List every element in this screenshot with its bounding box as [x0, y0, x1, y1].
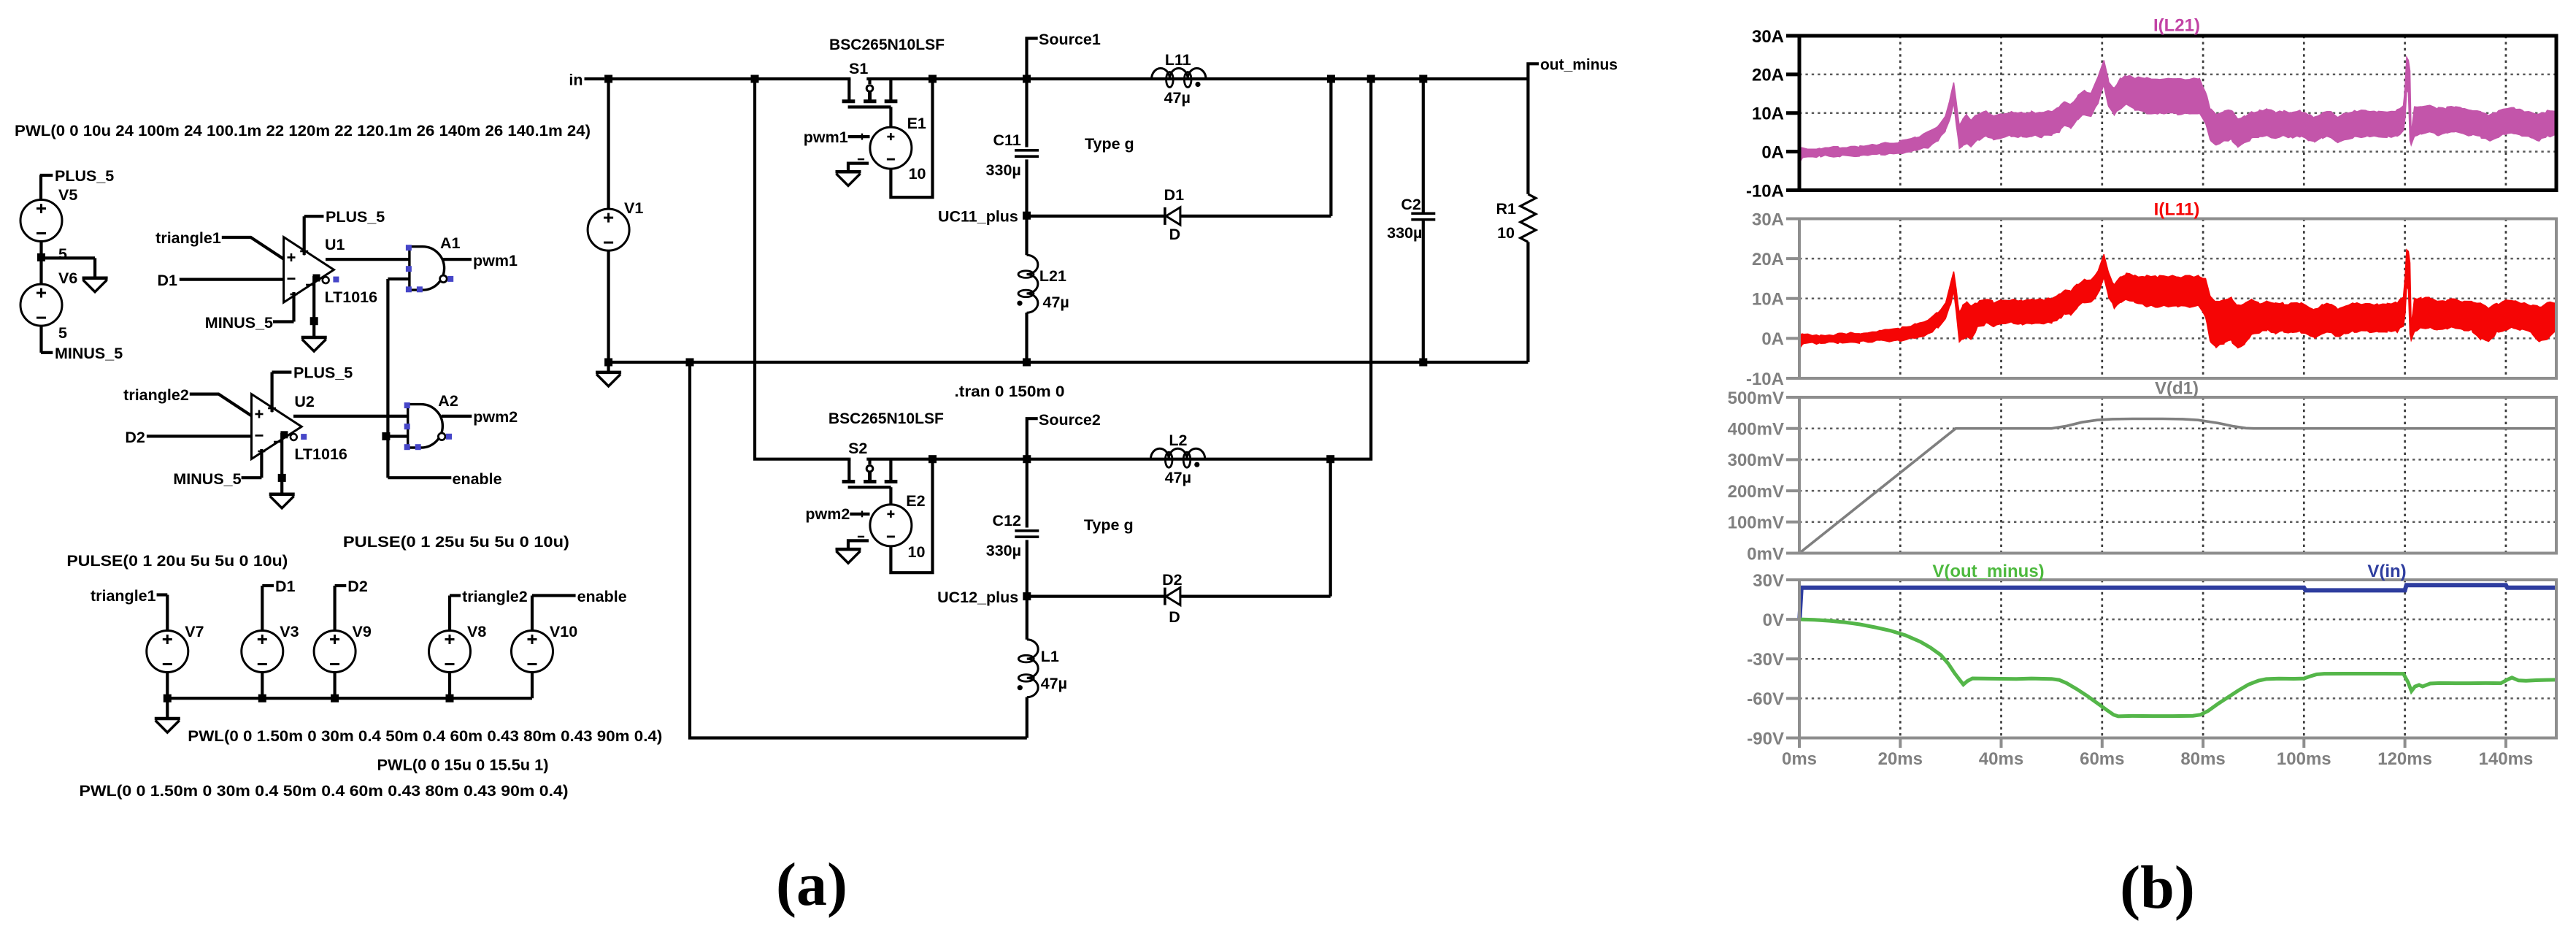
plot pane 2 border [1746, 210, 2556, 389]
node enable label (V10) [532, 588, 627, 605]
svg-text:47µ: 47µ [1043, 294, 1069, 311]
wire V1 bottom [607, 250, 610, 362]
svg-text:C12: C12 [993, 512, 1021, 529]
plot pane 1 grid [1799, 36, 2556, 191]
svg-text:D2: D2 [347, 578, 368, 595]
svg-text:(a): (a) [776, 851, 847, 919]
svg-text:5: 5 [58, 245, 67, 263]
svg-text:Type g: Type g [1085, 135, 1134, 153]
svg-text:300mV: 300mV [1728, 451, 1784, 470]
U1 V- pin wire MINUS_5 [205, 292, 298, 332]
node ground rail junction [686, 359, 694, 367]
wire riser to top rail [1329, 79, 1332, 216]
voltage source V6 [20, 269, 77, 326]
NAND gate A1 [406, 234, 518, 292]
diode D2 [1162, 571, 1183, 626]
svg-text:Source1: Source1 [1039, 31, 1101, 48]
U1 minus input mark [288, 277, 296, 280]
plot pane 4 border [1747, 571, 2556, 749]
wire D2 to U2- [147, 435, 252, 437]
svg-text:100mV: 100mV [1728, 513, 1784, 533]
plot pane 2 grid [1799, 219, 2556, 379]
svg-text:400mV: 400mV [1728, 420, 1784, 440]
wire S2 gate to E2 [889, 487, 892, 505]
plot pane 4 grid [1799, 580, 2556, 738]
node UC12_plus junction [1023, 592, 1031, 600]
node V5-V6 junction [37, 253, 45, 261]
svg-text:30A: 30A [1752, 27, 1784, 47]
wire lower return [690, 362, 1027, 738]
comparator U2 triangle [252, 394, 302, 459]
wire UC12_plus to D2 [1027, 594, 1165, 597]
node junction [331, 694, 339, 703]
svg-text:LT1016: LT1016 [294, 445, 347, 463]
svg-text:out_minus: out_minus [1540, 56, 1618, 74]
svg-text:D1: D1 [1164, 186, 1185, 204]
node pwm2 label (E2) [805, 505, 869, 523]
wire enable horizontal [388, 476, 451, 479]
node E2 return junction [928, 455, 937, 463]
wire [1025, 159, 1028, 215]
voltage source V9 [314, 623, 372, 673]
value label PWL (V8) [188, 727, 662, 745]
node V1 ground junction [604, 359, 612, 367]
svg-text:in: in [569, 72, 583, 89]
svg-text:D: D [1169, 608, 1180, 626]
svg-text:triangle1: triangle1 [155, 229, 221, 247]
svg-text:PWL(0 0 15u 0 15.5u 1): PWL(0 0 15u 0 15.5u 1) [377, 757, 549, 774]
svg-text:330µ: 330µ [986, 542, 1021, 559]
x axis labels [1782, 737, 2533, 769]
wire [39, 242, 42, 285]
svg-text:10: 10 [908, 543, 926, 561]
ground (V1) [596, 372, 621, 386]
svg-text:V1: V1 [624, 199, 643, 217]
wire ground rail [609, 361, 1529, 364]
svg-text:0A: 0A [1761, 142, 1784, 162]
svg-text:E1: E1 [907, 115, 926, 132]
wire [1025, 215, 1028, 255]
node junction [258, 694, 266, 703]
wire D1 to U1- [180, 278, 284, 281]
svg-text:10: 10 [1497, 224, 1515, 242]
svg-text:PULSE(0 1 20u 5u 5u 0 10u): PULSE(0 1 20u 5u 5u 0 10u) [66, 552, 288, 570]
svg-text:0mV: 0mV [1747, 544, 1784, 564]
node MINUS_5 label (V6 bottom) [41, 345, 123, 362]
value label Type g (lower) [1084, 516, 1134, 534]
wire D1 to rail riser [1180, 215, 1331, 218]
svg-text:.tran 0 150m 0: .tran 0 150m 0 [955, 383, 1065, 400]
svg-text:pwm2: pwm2 [473, 408, 518, 426]
svg-text:V(out_minus): V(out_minus) [1932, 562, 2044, 581]
U2 V+ pin wire PLUS_5 [268, 364, 353, 413]
svg-text:-30V: -30V [1747, 650, 1784, 670]
svg-text:-10A: -10A [1746, 181, 1784, 201]
wire feed to lower rail [755, 79, 849, 459]
svg-text:enable: enable [453, 470, 502, 488]
svg-text:I(L11): I(L11) [2154, 200, 2200, 220]
wire triangle1 to U1+ [222, 237, 284, 259]
voltage source V1 [588, 199, 643, 250]
voltage source V5 [20, 186, 77, 242]
svg-text:120ms: 120ms [2377, 749, 2432, 769]
value label PWL (V7) [80, 782, 569, 800]
svg-text:V(in): V(in) [2367, 562, 2406, 581]
node E1 return junction [928, 75, 937, 83]
svg-text:MINUS_5: MINUS_5 [55, 345, 123, 362]
ground (E1) [836, 172, 861, 185]
ground (U1) [301, 337, 327, 351]
svg-text:PLUS_5: PLUS_5 [326, 208, 385, 226]
wire [42, 256, 96, 259]
svg-text:BSC265N10LSF: BSC265N10LSF [829, 36, 945, 53]
wire V1 top [607, 79, 610, 210]
U1 plus input mark [288, 253, 296, 261]
svg-text:UC12_plus: UC12_plus [937, 589, 1018, 606]
svg-text:10A: 10A [1752, 290, 1784, 310]
plot pane 3 grid [1799, 397, 2556, 554]
wire [334, 586, 337, 631]
title V(out_minus) [1932, 562, 2044, 581]
U1 latch pin wire to ground [306, 276, 314, 337]
wire source row rail [167, 697, 532, 700]
svg-text:D1: D1 [158, 272, 178, 289]
svg-text:60ms: 60ms [2080, 749, 2124, 769]
trace I(L11) [1799, 250, 2556, 349]
wire V3 bottom [261, 673, 264, 699]
node triangle2 label [123, 386, 189, 404]
svg-text:V6: V6 [58, 269, 77, 287]
node PLUS_5 label (V5 top) [40, 167, 115, 185]
wire U2 output [293, 415, 408, 418]
value label PWL (V10) [377, 757, 549, 774]
wire top rail [609, 77, 1529, 80]
node pwm1 label (E1) [804, 129, 870, 146]
svg-text:L11: L11 [1165, 51, 1191, 69]
wire [448, 596, 451, 632]
diode D1 [1164, 186, 1185, 243]
svg-text:30V: 30V [1753, 571, 1784, 591]
wire to ground [166, 698, 169, 719]
svg-text:20A: 20A [1752, 66, 1784, 85]
svg-text:30A: 30A [1752, 210, 1784, 229]
node triangle1 label [155, 229, 221, 247]
svg-text:UC11_plus: UC11_plus [938, 207, 1018, 225]
svg-text:pwm2: pwm2 [805, 505, 850, 523]
ground [82, 278, 108, 292]
svg-text:500mV: 500mV [1728, 388, 1784, 408]
wire E1 minus control to ground [848, 164, 869, 172]
node junction [446, 694, 454, 703]
wire V10 bottom [531, 673, 534, 699]
svg-text:0V: 0V [1763, 610, 1784, 630]
svg-text:D2: D2 [1162, 571, 1183, 589]
value label Type g (upper) [1085, 135, 1134, 153]
trace V(in) [1799, 585, 2556, 619]
ground (source row) [155, 719, 180, 732]
title V(d1) [2155, 379, 2199, 399]
svg-text:10: 10 [909, 165, 926, 183]
value 5 (V5) [58, 245, 67, 263]
title V(in) [2367, 562, 2406, 581]
svg-text:20ms: 20ms [1878, 749, 1923, 769]
node D1 label (U1 -) [158, 272, 178, 289]
svg-text:D2: D2 [125, 429, 145, 446]
node in label [569, 72, 604, 89]
svg-text:330µ: 330µ [986, 161, 1021, 179]
voltage source V7 [147, 623, 204, 673]
node Source1 label [1027, 31, 1101, 79]
inductor L11 [1152, 51, 1206, 107]
wire D2 to riser [1180, 594, 1331, 597]
svg-text:BSC265N10LSF: BSC265N10LSF [828, 410, 944, 427]
svg-text:Source2: Source2 [1039, 411, 1101, 429]
vcvs E2 [858, 492, 926, 561]
U1 V+ pin wire PLUS_5 [300, 208, 385, 256]
value label PWL for V1 [15, 122, 591, 139]
wire [1422, 220, 1425, 362]
node enable label [453, 470, 502, 488]
U1 unused pin [333, 277, 339, 283]
svg-text:-90V: -90V [1747, 729, 1784, 749]
svg-text:PULSE(0 1 25u 5u 5u 0 10u): PULSE(0 1 25u 5u 5u 0 10u) [343, 533, 569, 551]
svg-text:C11: C11 [993, 131, 1021, 149]
wire [607, 362, 610, 372]
node L21 ground junction [1023, 359, 1031, 367]
wire R1 bottom [1526, 242, 1529, 362]
wire V8 bottom [448, 673, 451, 699]
node D2 label (V9) [335, 578, 368, 595]
wire E2 output return [891, 459, 932, 573]
svg-text:200mV: 200mV [1728, 482, 1784, 502]
svg-text:140ms: 140ms [2479, 749, 2534, 769]
svg-text:V7: V7 [185, 623, 204, 640]
title I(L11) [2154, 200, 2200, 220]
svg-text:20A: 20A [1752, 250, 1784, 269]
comparator U1 triangle [284, 237, 334, 303]
value label .tran [955, 383, 1065, 400]
wire S1 gate to E1 [889, 107, 892, 128]
svg-text:U1: U1 [325, 236, 345, 253]
trace I(L21) [1799, 57, 2556, 163]
resistor R1 [1496, 194, 1536, 242]
wire lower rail [849, 458, 1330, 461]
wire [1026, 697, 1029, 738]
svg-text:-10A: -10A [1746, 370, 1784, 389]
wire [1026, 597, 1029, 640]
value 5 (V6) [58, 324, 67, 342]
node C2 junction top [1419, 75, 1427, 83]
vcvs E1 [858, 115, 926, 183]
wire lower output riser [1331, 79, 1372, 459]
svg-text:D1: D1 [275, 578, 296, 595]
wire D2 riser [1329, 459, 1332, 597]
svg-text:40ms: 40ms [1979, 749, 2023, 769]
svg-text:330µ: 330µ [1387, 224, 1422, 242]
node C2 ground junction [1419, 359, 1427, 367]
svg-text:(b): (b) [2120, 854, 2195, 922]
node A2 input junction [382, 432, 390, 440]
node rail-to-lower junction [1367, 75, 1375, 83]
ground (E2) [836, 549, 861, 563]
inductor L1 [1018, 640, 1067, 697]
svg-text:C2: C2 [1401, 196, 1421, 213]
wire A1 output pwm1 [443, 258, 472, 261]
svg-text:V3: V3 [280, 623, 299, 640]
voltage source V3 [242, 623, 299, 673]
wire R1 top [1526, 79, 1529, 194]
wire [166, 595, 169, 632]
svg-text:V5: V5 [58, 186, 77, 204]
inductor L21 [1017, 255, 1069, 313]
wire U1 output [326, 258, 410, 261]
wire E1 output return [891, 79, 932, 197]
svg-text:L1: L1 [1041, 648, 1059, 665]
plot pane 3 border [1728, 388, 2556, 564]
svg-text:LT1016: LT1016 [325, 288, 378, 306]
voltage source V10 [512, 623, 578, 673]
value label PULSE (V9) [343, 533, 569, 551]
node U1 latch junction [310, 317, 318, 325]
node C11 junction top [1023, 75, 1031, 83]
svg-text:Type g: Type g [1084, 516, 1134, 534]
wire [1026, 459, 1029, 528]
node D1 label (V3) [262, 578, 295, 595]
label U1 [325, 236, 345, 253]
svg-text:D: D [1169, 226, 1181, 243]
svg-text:triangle2: triangle2 [123, 386, 189, 404]
wire [39, 175, 42, 201]
wire [1422, 79, 1425, 213]
caption (a) [776, 851, 847, 919]
svg-text:A2: A2 [438, 392, 458, 410]
node riser junction [1327, 75, 1335, 83]
value label BSC265N10LSF (S1) [829, 36, 945, 53]
node feed junction [751, 75, 759, 83]
svg-text:-60V: -60V [1747, 689, 1784, 709]
svg-text:I(L21): I(L21) [2153, 15, 2200, 35]
node triangle2 label (V8) [450, 588, 528, 605]
svg-text:R1: R1 [1496, 200, 1517, 218]
node UC12_plus label [937, 589, 1018, 606]
U2 minus input mark [255, 435, 264, 437]
node C12 junction top [1023, 455, 1031, 463]
ground (U2) [269, 494, 295, 508]
title I(L21) [2153, 15, 2200, 35]
label LT1016 (U2) [294, 445, 347, 463]
inductor L2 [1150, 432, 1204, 486]
wire A1 second input [388, 277, 410, 280]
value label PULSE (V7) [66, 552, 288, 570]
wire [39, 326, 42, 353]
node U2 latch junction [278, 474, 286, 482]
svg-text:100ms: 100ms [2277, 749, 2331, 769]
svg-text:U2: U2 [294, 393, 315, 410]
svg-text:10A: 10A [1752, 104, 1784, 124]
svg-text:pwm1: pwm1 [473, 252, 518, 269]
trace V(out_minus) [1799, 619, 2556, 716]
wire [1025, 79, 1028, 148]
wire triangle2 to U2+ [190, 394, 252, 416]
svg-text:80ms: 80ms [2180, 749, 2225, 769]
switch S2 [842, 440, 898, 487]
node out_minus label [1528, 56, 1618, 80]
wire V9 bottom [334, 673, 337, 699]
svg-text:PWL(0 0 1.50m 0 30m 0.4 50m 0.: PWL(0 0 1.50m 0 30m 0.4 50m 0.4 60m 0.43… [188, 727, 662, 745]
node UC11_plus junction [1023, 212, 1031, 220]
node triangle1 label (V7) [91, 587, 167, 605]
svg-text:47µ: 47µ [1041, 675, 1067, 692]
wire UC11_plus to D1 [1027, 215, 1165, 218]
svg-text:A1: A1 [440, 234, 461, 252]
U2 plus input mark [255, 410, 264, 418]
svg-text:V9: V9 [353, 623, 372, 640]
wire A2 second input [388, 435, 407, 437]
wire E2 minus control to ground [848, 540, 869, 549]
wire [93, 258, 96, 277]
svg-text:S1: S1 [849, 60, 868, 77]
U2 V- pin wire MINUS_5 [173, 449, 265, 488]
value label BSC265N10LSF (S2) [828, 410, 944, 427]
svg-text:enable: enable [577, 588, 627, 605]
svg-text:PWL(0 0 10u 24 100m 24 100.1m: PWL(0 0 10u 24 100m 24 100.1m 22 120m 22… [15, 122, 591, 139]
svg-text:V(d1): V(d1) [2155, 379, 2199, 399]
U2 latch pin wire to ground [274, 433, 282, 494]
wire V7 bottom [166, 673, 169, 699]
wire [261, 586, 264, 631]
U2 unused pin [301, 434, 307, 440]
svg-text:0ms: 0ms [1782, 749, 1817, 769]
U2 inverted output bubble [280, 431, 296, 440]
wire [531, 596, 534, 632]
svg-text:0A: 0A [1761, 329, 1784, 349]
wire [1025, 313, 1028, 362]
capacitor C2 [1387, 196, 1435, 242]
label LT1016 (U1) [325, 288, 378, 306]
svg-text:triangle1: triangle1 [91, 587, 156, 605]
svg-text:S2: S2 [848, 440, 867, 457]
svg-text:MINUS_5: MINUS_5 [205, 314, 273, 332]
trace V(d1) [1799, 419, 2556, 554]
node Source2 label [1027, 411, 1101, 459]
svg-text:E2: E2 [906, 492, 925, 510]
svg-text:L2: L2 [1169, 432, 1187, 449]
svg-text:V10: V10 [550, 623, 577, 640]
svg-text:PLUS_5: PLUS_5 [293, 364, 353, 382]
label U2 [294, 393, 315, 410]
svg-text:V8: V8 [467, 623, 486, 640]
voltage source V8 [429, 623, 487, 673]
node junction [164, 694, 172, 703]
wire [1026, 540, 1029, 596]
switch S1 [842, 60, 898, 107]
wire enable vertical [386, 279, 389, 478]
svg-text:MINUS_5: MINUS_5 [173, 470, 241, 488]
node D2 label (U2 -) [125, 429, 145, 446]
svg-text:pwm1: pwm1 [804, 129, 848, 146]
svg-text:PWL(0 0 1.50m 0 30m 0.4 50m 0.: PWL(0 0 1.50m 0 30m 0.4 50m 0.4 60m 0.43… [80, 782, 569, 800]
plot pane 1 border [1746, 27, 2556, 201]
wire A2 output pwm2 [442, 415, 472, 418]
capacitor C12 [986, 512, 1039, 559]
node D2 riser junction [1326, 455, 1334, 463]
NAND gate A2 [404, 392, 518, 450]
U1 inverted output bubble [313, 275, 329, 284]
svg-text:47µ: 47µ [1164, 89, 1191, 107]
svg-text:5: 5 [58, 324, 67, 342]
svg-text:47µ: 47µ [1165, 469, 1191, 486]
svg-text:PLUS_5: PLUS_5 [55, 167, 114, 185]
